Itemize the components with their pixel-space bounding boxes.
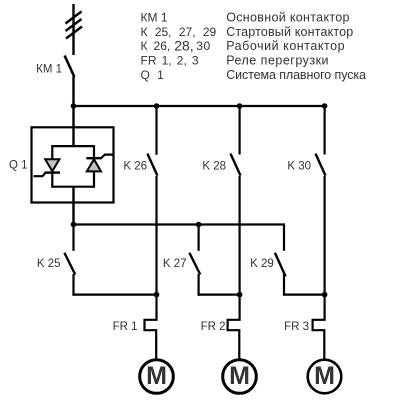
motor M2 (223, 360, 257, 394)
3-phase supply line (66, 4, 83, 55)
svg-text:FR 3: FR 3 (284, 321, 309, 333)
svg-text:КМ 1: КМ 1 (36, 64, 62, 76)
thyristor left (cathode down) (34, 159, 61, 176)
overload relay FR1 (113, 295, 157, 359)
wire K27 to node E (198, 294, 240, 296)
node C (second bus / K27) (196, 222, 202, 228)
node F (322, 292, 328, 298)
svg-text:K 28: K 28 (202, 160, 226, 172)
second bus wire (74, 223, 285, 225)
soft starter Q1 box (9, 127, 114, 202)
contact K25 (37, 225, 75, 296)
svg-text:Рабочий контактор: Рабочий контактор (226, 39, 345, 53)
svg-text:FR 1: FR 1 (113, 321, 138, 333)
svg-text:M: M (314, 362, 335, 390)
motor M1 (140, 360, 174, 394)
node B (main/second bus) (71, 222, 77, 228)
svg-text:Стартовый контактор: Стартовый контактор (226, 25, 353, 39)
contact K27 (163, 225, 200, 296)
legend descriptions column (226, 11, 366, 83)
contact K28 (202, 106, 240, 295)
svg-text:FR 1, 2, 3: FR 1, 2, 3 (141, 54, 199, 68)
svg-text:Реле перегрузки: Реле перегрузки (226, 54, 329, 68)
svg-text:K 26: K 26 (123, 160, 147, 172)
contact K29 (250, 223, 285, 295)
contact K26 (123, 106, 157, 295)
legend labels column (141, 11, 217, 83)
svg-text:КМ 1: КМ 1 (141, 11, 168, 25)
wire node A to Q1 (72, 106, 74, 146)
svg-text:K 30: K 30 (287, 160, 311, 172)
wire K25 to node D (72, 294, 156, 296)
contactor KM1 (36, 56, 74, 78)
wire Q1 to node B (72, 187, 74, 225)
svg-text:28,: 28, (174, 38, 193, 54)
node: top bus / K26 column (154, 103, 160, 109)
overload relay FR2 (201, 295, 240, 359)
node: top bus / K28 column (237, 103, 243, 109)
svg-text:M: M (229, 362, 250, 390)
node E (237, 292, 243, 298)
wire K29 to node F (283, 294, 325, 296)
svg-text:Q 1: Q 1 (141, 68, 165, 82)
node D (154, 292, 160, 298)
thyristor loop rails (52, 145, 94, 188)
svg-text:К 26,: К 26, (141, 39, 171, 53)
svg-text:Q 1: Q 1 (9, 160, 28, 172)
svg-text:30: 30 (196, 39, 211, 53)
svg-text:Основной контактор: Основной контактор (226, 11, 350, 25)
top bus wire (74, 105, 325, 107)
svg-text:K 29: K 29 (250, 258, 274, 270)
node: top bus / K30 column (322, 103, 328, 109)
svg-text:Система плавного пуска: Система плавного пуска (226, 68, 366, 82)
node A (junction dot main/top bus) (71, 103, 77, 109)
svg-text:FR 2: FR 2 (201, 321, 226, 333)
wire KM1 to node A (72, 77, 74, 107)
motor M3 (308, 360, 342, 394)
svg-text:M: M (146, 362, 167, 390)
overload relay FR3 (284, 295, 325, 359)
svg-text:K 27: K 27 (163, 258, 187, 270)
thyristor right (cathode up) (86, 155, 113, 172)
contact K30 (287, 106, 325, 295)
svg-text:K 25: K 25 (37, 258, 61, 270)
